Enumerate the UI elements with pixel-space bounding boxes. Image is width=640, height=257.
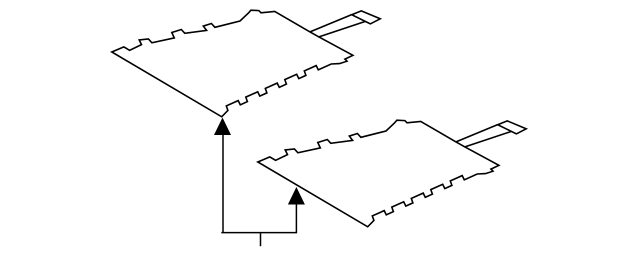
insulator pad 2 (lower right): [258, 120, 526, 227]
arrow 2 shaft / bracket right vertical: [295, 204, 297, 233]
bracket horizontal line: [221, 232, 297, 234]
arrow 1 head: [214, 118, 231, 136]
insulator pad 1 (upper left): [112, 10, 380, 117]
arrow 1 shaft / bracket left vertical: [222, 134, 224, 233]
arrow 2 head: [288, 187, 305, 205]
leader tick: [260, 233, 262, 246]
